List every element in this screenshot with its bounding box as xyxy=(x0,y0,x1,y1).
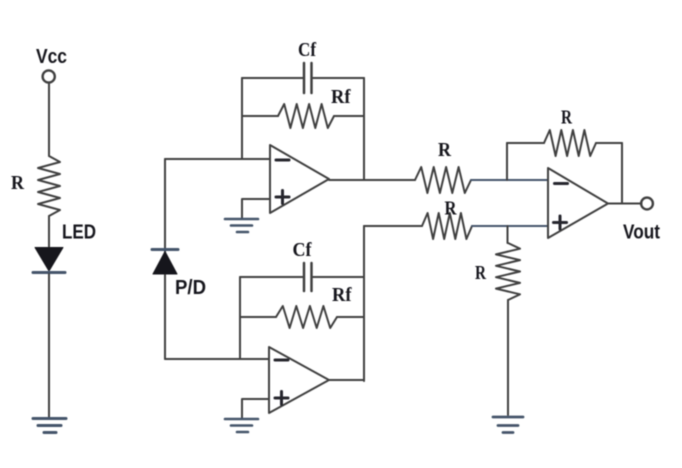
wire feedback left vertical (top) xyxy=(241,78,243,159)
ground (U3 plus leg) xyxy=(493,417,523,433)
svg-text:P/D: P/D xyxy=(175,277,206,299)
svg-text:Vout: Vout xyxy=(623,222,660,244)
wire R to U3 inverting input xyxy=(471,179,548,181)
wire U2 output xyxy=(329,379,364,381)
svg-text:R: R xyxy=(438,139,451,161)
wire R to U3 non-inverting input xyxy=(472,225,548,227)
capacitor Cf (bottom) xyxy=(240,263,364,291)
U3 plus sign xyxy=(554,216,567,229)
svg-text:Vcc: Vcc xyxy=(36,46,67,68)
resistor Rf (bottom) xyxy=(240,306,364,328)
wire R to LED xyxy=(48,216,50,248)
ground (top op-amp) xyxy=(225,219,258,232)
wire U3 output xyxy=(608,203,642,205)
wire R to ground xyxy=(507,300,509,415)
svg-text:Rf: Rf xyxy=(332,284,352,306)
svg-text:R: R xyxy=(475,262,486,284)
wire feedback right vertical (top) xyxy=(363,78,365,180)
wire LED to ground xyxy=(48,274,50,417)
ground (bottom op-amp) xyxy=(225,419,258,432)
svg-text:Rf: Rf xyxy=(331,86,351,108)
op-amp U1 (top) xyxy=(270,145,329,213)
wire photodiode vertical xyxy=(164,159,166,359)
wire U3 plus to R ground leg xyxy=(507,226,509,243)
wire U2 output to second R xyxy=(364,225,422,227)
wire U3 feedback top right xyxy=(596,142,622,144)
U1 minus sign xyxy=(276,159,289,162)
LED diode D1 xyxy=(33,248,65,273)
svg-text:R: R xyxy=(561,107,572,129)
resistor R (left) xyxy=(38,156,60,216)
U1 plus sign xyxy=(276,191,289,204)
U3 minus sign xyxy=(555,182,568,185)
wire to top op-amp inverting input xyxy=(165,158,270,160)
wire to bottom op-amp inverting input xyxy=(165,358,269,360)
Vout terminal xyxy=(641,198,653,210)
ground (left branch) xyxy=(33,419,66,433)
resistor R (U1 output to U3) xyxy=(415,167,471,193)
op-amp U2 (bottom) xyxy=(269,347,329,413)
wire U1 non-inverting input xyxy=(242,199,270,218)
U2 minus sign xyxy=(275,359,288,362)
resistor R (U3 feedback) xyxy=(544,130,596,156)
svg-text:LED: LED xyxy=(62,222,96,244)
U2 plus sign xyxy=(275,392,288,405)
wire feedback right vertical / output riser (bottom) xyxy=(363,226,365,381)
wire U2 non-inverting input xyxy=(242,399,269,418)
resistor R (U2 output to U3) xyxy=(422,213,472,239)
wire U3 feedback top left xyxy=(507,142,544,144)
capacitor Cf (top) xyxy=(242,63,364,93)
op-amp U3 (difference) xyxy=(548,168,608,238)
wire U3 feedback right vertical xyxy=(621,143,623,204)
svg-text:R: R xyxy=(445,198,457,220)
resistor R (to ground) xyxy=(496,243,520,300)
wire Vcc to R xyxy=(48,83,50,156)
wire U1 output xyxy=(329,179,415,181)
wire feedback left vertical (bottom) xyxy=(239,277,241,359)
Vcc terminal xyxy=(43,70,55,82)
resistor Rf (top) xyxy=(242,104,364,128)
svg-text:Cf: Cf xyxy=(298,39,316,61)
svg-text:R: R xyxy=(11,172,24,194)
photodiode P/D xyxy=(152,250,178,275)
svg-text:Cf: Cf xyxy=(293,239,312,261)
wire U3 feedback left vertical xyxy=(506,143,508,180)
